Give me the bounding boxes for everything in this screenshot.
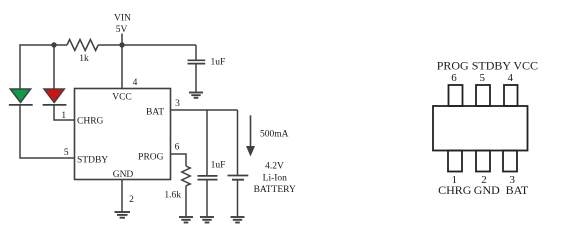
ground under C1 (189, 93, 203, 98)
current arrow 500mA (250, 115, 252, 147)
ground under R2 (179, 217, 193, 223)
ground pin2 (115, 212, 131, 218)
svg-text:1uF: 1uF (211, 58, 226, 68)
capacitor C2 1uF (198, 175, 218, 177)
IC body SOT-23-6 (433, 106, 528, 151)
svg-text:1.6k: 1.6k (164, 191, 181, 201)
svg-text:CHRG: CHRG (438, 183, 472, 197)
wire D1 cathode to STDBY (20, 105, 75, 158)
wire resistor to VIN node (98, 44, 122, 46)
svg-text:VIN: VIN (114, 14, 131, 24)
svg-text:6: 6 (175, 143, 180, 153)
junction at red LED branch (51, 42, 56, 47)
pin 1 pad (448, 151, 462, 172)
wire VIN stub (121, 34, 123, 46)
pin 5 pad (476, 85, 490, 106)
ground under BT1 (231, 217, 245, 223)
wire C2 branch (206, 110, 208, 175)
svg-text:3: 3 (175, 99, 180, 109)
svg-text:VCC: VCC (112, 93, 132, 103)
capacitor C1 1uF (195, 45, 197, 60)
svg-text:PROG: PROG (138, 153, 163, 163)
resistor R2 1.6k (171, 154, 187, 166)
svg-text:1: 1 (61, 111, 66, 121)
resistor R1 1k (67, 40, 98, 51)
wire red branch top (53, 45, 55, 89)
pin 6 pad (449, 85, 463, 106)
wire D2 cathode to CHRG (54, 105, 75, 120)
svg-text:6: 6 (451, 72, 457, 84)
svg-text:GND: GND (113, 170, 134, 180)
pin 3 pad (503, 151, 517, 172)
svg-text:1uF: 1uF (211, 161, 226, 171)
svg-text:CHRG: CHRG (77, 117, 104, 127)
svg-text:BAT: BAT (146, 108, 164, 118)
LED D2 red (44, 89, 64, 103)
svg-text:BAT: BAT (506, 183, 529, 197)
svg-text:4.2V: 4.2V (265, 162, 284, 172)
svg-text:BATTERY: BATTERY (254, 185, 296, 195)
pin 4 pad (504, 85, 518, 106)
op-amp U1 (charger IC box) (75, 89, 171, 180)
svg-text:500mA: 500mA (260, 130, 289, 140)
wire pin2 GND (121, 180, 123, 212)
svg-text:4: 4 (133, 78, 138, 88)
wire top rail left (20, 45, 67, 89)
svg-text:5: 5 (479, 72, 485, 84)
pin 2 pad (476, 151, 490, 172)
svg-text:Li-Ion: Li-Ion (263, 173, 288, 183)
junction VIN node (119, 42, 124, 47)
svg-text:2: 2 (129, 195, 134, 205)
svg-text:1k: 1k (79, 54, 89, 64)
svg-text:STDBY: STDBY (77, 156, 108, 166)
svg-text:5: 5 (64, 148, 69, 158)
wire VIN node to C1 (122, 44, 196, 46)
svg-text:4: 4 (507, 72, 513, 84)
wire pin3 BAT rail (171, 109, 238, 111)
wire pin4 VCC (121, 45, 123, 89)
LED D1 green (10, 89, 30, 103)
battery BT1 (237, 110, 239, 175)
ground under C2 (200, 217, 214, 223)
svg-text:GND: GND (474, 183, 500, 197)
svg-text:PROG STDBY VCC: PROG STDBY VCC (437, 59, 538, 73)
